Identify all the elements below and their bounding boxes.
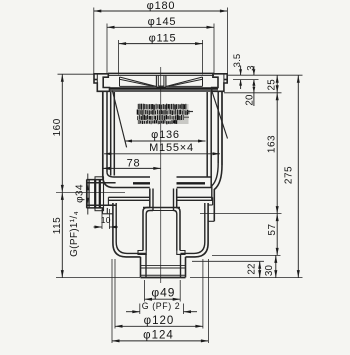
svg-text:163: 163 [267, 135, 278, 153]
flange right end [212, 74, 228, 92]
svg-text:G(PF)1¹/₄: G(PF)1¹/₄ [69, 211, 80, 257]
dimension φ145 [107, 16, 214, 29]
svg-text:78: 78 [127, 158, 141, 170]
side port flange bumps [95, 177, 104, 211]
svg-text:φ136: φ136 [151, 129, 180, 141]
svg-text:φ49: φ49 [151, 286, 175, 300]
dimension φ49 [145, 286, 181, 301]
dimension 3 [245, 65, 256, 85]
side port tube [87, 177, 104, 211]
ext right F [212, 254, 281, 256]
ext right E [200, 213, 282, 215]
svg-text:φ120: φ120 [144, 315, 175, 327]
leader line right [212, 92, 227, 138]
basket wall right [207, 92, 211, 188]
outlet pipe walls [141, 254, 186, 278]
trap box right wall [181, 203, 209, 257]
svg-text:φ180: φ180 [147, 0, 176, 12]
ext lines φ120 [115, 259, 203, 329]
shell floor [113, 177, 212, 188]
bell [143, 208, 180, 251]
svg-text:10: 10 [101, 215, 111, 225]
dimension φ120 [115, 315, 203, 328]
svg-text:3.5: 3.5 [232, 54, 243, 68]
boss below port [103, 208, 113, 214]
trap box top plate [108, 197, 212, 205]
dimension 25 [266, 75, 278, 93]
ext lines φ124 [112, 259, 208, 343]
svg-text:φ115: φ115 [149, 32, 177, 44]
strainer mesh hatch [137, 104, 193, 125]
ext right A [228, 74, 303, 76]
svg-text:30: 30 [264, 265, 275, 277]
lid top plate [108, 73, 214, 75]
svg-text:M155×4: M155×4 [149, 142, 194, 154]
dimension φ34 [75, 174, 90, 215]
dimension 160 [52, 74, 64, 192]
leader line left [112, 90, 126, 147]
dimension 3.5 [232, 54, 243, 89]
neck riser [150, 189, 177, 211]
ext right B [233, 79, 259, 81]
svg-text:φ124: φ124 [143, 330, 174, 342]
dimension φ115 [119, 32, 203, 45]
outlet pipe thread step [141, 266, 186, 268]
ext lines φ49 [145, 280, 181, 302]
bell foot right [177, 251, 185, 255]
dimension φ136 [125, 129, 206, 143]
extension lines top [94, 8, 228, 75]
ext right C [224, 92, 282, 94]
dimension φ180 [94, 0, 228, 13]
svg-text:22: 22 [246, 263, 257, 274]
dimension φ124 [112, 330, 208, 343]
lid bottom band [110, 89, 218, 92]
ext line bottom left [56, 277, 140, 279]
lid right wedge rib [166, 77, 202, 86]
svg-text:57: 57 [267, 223, 278, 235]
dimension 20 [244, 80, 255, 106]
svg-text:115: 115 [52, 217, 63, 234]
dimension 30 [264, 255, 277, 277]
svg-text:20: 20 [244, 94, 255, 106]
lid left wedge rib [120, 77, 157, 86]
lid hub pocket [156, 75, 166, 87]
trap box left wall [113, 203, 146, 257]
svg-text:25: 25 [266, 79, 277, 91]
ext right G [190, 277, 303, 279]
svg-text:275: 275 [284, 166, 295, 184]
dimension 78 [103, 158, 161, 170]
label G(PF)1 1/4 [69, 211, 80, 257]
dimension M155×4 [104, 142, 220, 155]
dimension 57 [267, 214, 279, 256]
flange left end [94, 74, 110, 92]
dimension 22 [246, 261, 261, 277]
bell foot left [138, 251, 146, 255]
dimension G (PF) 2 [126, 301, 197, 313]
centerline vertical [160, 67, 162, 283]
side port bore [87, 183, 116, 206]
ext lines G2 [140, 304, 184, 315]
ext right F2 [192, 260, 264, 262]
svg-text:3: 3 [245, 65, 256, 70]
shell left wall [103, 91, 114, 187]
dimension 275 [284, 75, 300, 277]
dimension 10 [94, 209, 119, 229]
outlet pipe end [141, 275, 186, 277]
ext line lid top left [58, 73, 95, 75]
basket wall left [111, 92, 115, 176]
svg-text:160: 160 [52, 118, 63, 136]
svg-text:φ34: φ34 [75, 184, 86, 203]
svg-text:G (PF) 2: G (PF) 2 [142, 301, 181, 311]
dimension 163 [267, 93, 279, 214]
shell right wall [208, 91, 222, 221]
svg-text:φ145: φ145 [148, 16, 177, 28]
centerline port [56, 191, 125, 193]
dimension 115 [52, 192, 64, 277]
